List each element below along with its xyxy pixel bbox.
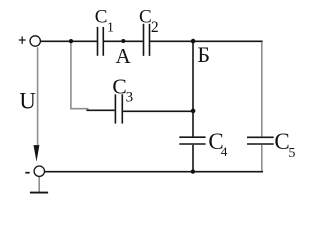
svg-text:C: C	[139, 7, 152, 28]
svg-text:C: C	[274, 129, 289, 154]
svg-text:C: C	[95, 7, 108, 28]
svg-text:2: 2	[151, 19, 159, 36]
svg-text:5: 5	[289, 145, 296, 160]
svg-text:Б: Б	[197, 42, 210, 67]
svg-text:3: 3	[126, 90, 134, 106]
svg-text:4: 4	[221, 144, 228, 159]
svg-text:C: C	[112, 74, 126, 98]
svg-text:A: A	[116, 45, 131, 68]
svg-text:U: U	[19, 89, 35, 114]
svg-text:1: 1	[107, 20, 114, 35]
